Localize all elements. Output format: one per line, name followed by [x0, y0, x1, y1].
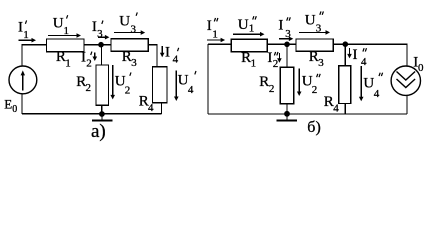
- svg-text:4: 4: [148, 102, 154, 114]
- label R4'': [324, 94, 339, 115]
- label I0: [413, 54, 424, 74]
- svg-text:3: 3: [318, 57, 324, 69]
- svg-text:1: 1: [251, 57, 257, 69]
- resistor R1: [47, 39, 85, 52]
- svg-text:2: 2: [312, 84, 318, 96]
- source E0 (EMF source circle with up arrow): [9, 66, 37, 94]
- wire: rail R3'' to right corner: [333, 44, 407, 66]
- wire: I0 bottom to bottom rail: [406, 95, 408, 114]
- current source I0 (circle with double chevron): [391, 66, 420, 95]
- node junction dot (top node): [98, 42, 104, 48]
- wire: top rail b left segment: [208, 43, 231, 45]
- label U2'' with voltage arrow: [297, 69, 320, 97]
- ground symbol a: [92, 114, 112, 121]
- node junction dot b: [284, 42, 290, 48]
- svg-text:2: 2: [86, 58, 92, 70]
- resistor R4: [153, 67, 168, 103]
- label U1'' with voltage arrow: [233, 16, 264, 36]
- resistor R2'': [280, 67, 293, 104]
- label R2: [76, 74, 91, 94]
- svg-text:а): а): [91, 121, 106, 142]
- svg-text:1: 1: [65, 57, 71, 69]
- label U4'' with voltage arrow: [359, 66, 383, 101]
- resistor R3'': [296, 39, 333, 51]
- label I2'' with down arrow: [267, 50, 281, 70]
- wire: left vertical b: [207, 44, 209, 114]
- svg-text:U: U: [305, 13, 316, 29]
- wire: rail R1'' to node b: [267, 43, 296, 45]
- label R3: [122, 49, 137, 69]
- wire: left vertical from rail down to E0 top: [21, 44, 23, 66]
- resistor R1'': [231, 39, 267, 51]
- label R4: [139, 94, 154, 114]
- label E0: [4, 96, 17, 115]
- svg-text:4: 4: [333, 103, 339, 115]
- svg-text:I: I: [353, 47, 358, 63]
- label U4' with voltage arrow: [174, 71, 196, 101]
- ground junction dot a: [99, 111, 105, 117]
- label R3'': [309, 49, 324, 69]
- label U2' with voltage arrow: [110, 65, 131, 100]
- svg-text:2: 2: [86, 82, 92, 94]
- label I2' with down arrow: [81, 50, 97, 70]
- wire: junction down to R4'': [344, 44, 346, 66]
- label I3'' with current arrow: [278, 17, 293, 41]
- label U3' with voltage arrow: [114, 12, 145, 35]
- wire: E0 bottom to bottom rail: [21, 94, 23, 114]
- wire: R4 bottom to bottom rail: [161, 103, 163, 114]
- label a): [91, 121, 106, 142]
- resistor R3: [111, 39, 148, 52]
- label b): [307, 119, 320, 136]
- resistor R2: [96, 65, 109, 105]
- label U3'' with voltage arrow: [299, 11, 330, 34]
- svg-text:3: 3: [97, 28, 103, 40]
- svg-text:U: U: [238, 17, 249, 33]
- ground junction dot b: [284, 111, 290, 117]
- wire: R2'' bottom to bottom rail: [286, 104, 288, 114]
- svg-text:2: 2: [269, 83, 275, 95]
- svg-text:4: 4: [188, 84, 194, 96]
- svg-text:4: 4: [173, 54, 179, 66]
- ground symbol b: [276, 114, 297, 121]
- label I3' with current arrow: [92, 19, 110, 40]
- wire: top rail left segment (E0 top corner to R1): [22, 44, 47, 46]
- svg-text:E: E: [4, 96, 12, 111]
- wire: R2 bottom to bottom rail: [101, 105, 103, 114]
- svg-text:U: U: [53, 16, 64, 32]
- svg-text:I: I: [165, 44, 170, 60]
- svg-text:4: 4: [374, 88, 380, 100]
- svg-text:1: 1: [23, 29, 29, 41]
- svg-text:б): б): [307, 119, 320, 136]
- wire: node b down to R2'': [286, 44, 288, 67]
- svg-text:2: 2: [125, 85, 131, 97]
- svg-text:3: 3: [131, 57, 137, 69]
- wire: rail R1 to node: [84, 44, 111, 46]
- label R1: [56, 49, 71, 69]
- svg-text:1: 1: [212, 28, 218, 40]
- svg-text:R: R: [259, 74, 269, 90]
- wire: bottom rail a: [22, 113, 162, 115]
- label U1' with voltage arrow: [48, 15, 81, 38]
- svg-text:0: 0: [418, 62, 424, 74]
- svg-text:U: U: [119, 14, 130, 30]
- svg-text:I: I: [278, 17, 283, 33]
- junction dot R4'' branch: [343, 41, 349, 47]
- svg-text:0: 0: [12, 104, 17, 115]
- wire: bottom rail b: [208, 113, 407, 115]
- svg-text:I: I: [18, 20, 23, 36]
- svg-text:I: I: [267, 50, 272, 66]
- wire: node down to R2: [100, 45, 102, 65]
- wire: R4'' bottom to bottom rail: [344, 103, 346, 114]
- svg-text:2: 2: [273, 58, 279, 70]
- svg-text:I: I: [207, 18, 212, 34]
- label I4' with down arrow: [160, 44, 179, 65]
- wire: R3 right, corner down to R4: [148, 45, 157, 67]
- label R2'': [259, 74, 274, 95]
- label I1' with current arrow: [18, 20, 36, 43]
- label I4'' with down arrow: [347, 47, 367, 68]
- label I1'' with current arrow: [207, 18, 225, 42]
- label R1'': [241, 50, 256, 69]
- svg-text:4: 4: [361, 56, 367, 68]
- resistor R4'': [339, 66, 351, 104]
- svg-text:1: 1: [249, 23, 255, 35]
- svg-text:3: 3: [131, 23, 137, 35]
